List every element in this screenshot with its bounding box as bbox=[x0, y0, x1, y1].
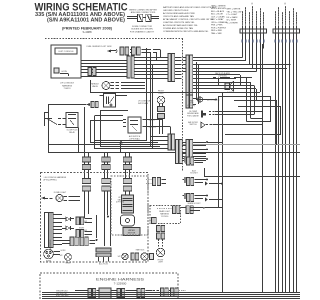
svg-text:WIPER: WIPER bbox=[128, 230, 135, 232]
svg-text:CIRCUITS AND GRN AND TAN: CIRCUITS AND GRN AND TAN bbox=[163, 15, 194, 18]
svg-text:LH CONSOLE: LH CONSOLE bbox=[50, 239, 52, 251]
svg-text:FUEL SENDER 5.0FT GRN: FUEL SENDER 5.0FT GRN bbox=[87, 46, 112, 48]
svg-text:LT = LIGHT: LT = LIGHT bbox=[227, 14, 238, 16]
svg-text:TAN = TAN: TAN = TAN bbox=[211, 32, 222, 35]
svg-text:LIGHT: LIGHT bbox=[158, 93, 164, 95]
svg-text:7-125900: 7-125900 bbox=[114, 282, 127, 286]
svg-text:BODIES NOT SHOWN: BODIES NOT SHOWN bbox=[131, 29, 153, 31]
svg-text:BLK = BLACK: BLK = BLACK bbox=[211, 10, 225, 13]
svg-text:S-4988: S-4988 bbox=[82, 30, 91, 34]
svg-text:GROUND CIRCUITS BLK: GROUND CIRCUITS BLK bbox=[163, 10, 189, 12]
svg-text:SWITCHES: SWITCHES bbox=[138, 103, 149, 105]
svg-text:COMMUNICATION CIRCUITS GRN-BR: COMMUNICATION CIRCUITS GRN-BRN-YEL bbox=[163, 30, 209, 33]
svg-text:FUEL GAUGE: FUEL GAUGE bbox=[187, 114, 199, 117]
svg-text:(OPTIONAL): (OPTIONAL) bbox=[129, 137, 140, 140]
svg-text:BRN = BROWN: BRN = BROWN bbox=[211, 8, 226, 10]
svg-text:ATTACHMENT CONTROL CIRCUITS G: ATTACHMENT CONTROL CIRCUITS GRN OR YEL bbox=[163, 18, 215, 21]
svg-text:RED = RED: RED = RED bbox=[211, 30, 223, 32]
svg-text:L/H CONSOLE HARNESS: L/H CONSOLE HARNESS bbox=[44, 176, 67, 179]
svg-text:RELAY: RELAY bbox=[69, 131, 76, 134]
svg-text:SOME CONNECTOR: SOME CONNECTOR bbox=[132, 26, 153, 28]
svg-text:POWER AND DOME YEL TAN: POWER AND DOME YEL TAN bbox=[163, 27, 193, 30]
svg-text:BATTERY FEED AND IGN KEY FEED: BATTERY FEED AND IGN KEY FEED CIRCUITS R… bbox=[163, 6, 217, 9]
svg-text:ACCESSORIES AND AUX PWR: ACCESSORIES AND AUX PWR bbox=[163, 12, 195, 15]
svg-text:ACCESSORY AND AUX FEED YEL: ACCESSORY AND AUX FEED YEL bbox=[163, 24, 199, 27]
svg-text:LIGHT: LIGHT bbox=[158, 262, 163, 264]
svg-text:LIGHTING CIRCUITS GRN-YEL: LIGHTING CIRCUITS GRN-YEL bbox=[163, 22, 195, 24]
svg-text:GRN = GREEN: GRN = GREEN bbox=[211, 5, 226, 7]
svg-text:PNK = PINK: PNK = PINK bbox=[211, 25, 223, 27]
svg-text:7-125690: 7-125690 bbox=[161, 216, 169, 218]
svg-text:BLU = BLUE: BLU = BLUE bbox=[211, 14, 223, 16]
svg-text:DOME LIGHT: DOME LIGHT bbox=[54, 192, 67, 194]
svg-text:DK = DARK: DK = DARK bbox=[227, 16, 239, 19]
svg-text:(OPTION): (OPTION) bbox=[116, 202, 124, 204]
svg-text:(IF EQUIPPED): (IF EQUIPPED) bbox=[43, 180, 57, 182]
svg-text:VALVE: VALVE bbox=[92, 85, 99, 88]
svg-text:SOCKET: SOCKET bbox=[190, 173, 198, 175]
svg-text:GRY = GRAY: GRY = GRAY bbox=[211, 18, 224, 21]
svg-text:HORN: HORN bbox=[61, 250, 67, 252]
svg-text:ORG = ORANGE: ORG = ORANGE bbox=[211, 21, 228, 24]
svg-text:(OPTION): (OPTION) bbox=[187, 105, 195, 107]
svg-text:PUR = PURPLE: PUR = PURPLE bbox=[211, 27, 227, 29]
svg-text:(S/N A9KA11001 AND ABOVE): (S/N A9KA11001 AND ABOVE) bbox=[47, 18, 125, 24]
svg-text:FOR DRAWING CLARITY: FOR DRAWING CLARITY bbox=[130, 30, 155, 33]
svg-text:SWITCH: SWITCH bbox=[189, 124, 197, 126]
svg-text:LEFT CONSOLE: LEFT CONSOLE bbox=[58, 51, 74, 53]
svg-text:L/H CONSOLE: L/H CONSOLE bbox=[60, 83, 75, 85]
svg-text:A2A OEM CONNECTORS: A2A OEM CONNECTORS bbox=[131, 11, 156, 14]
svg-text:ACC PLUG: ACC PLUG bbox=[99, 263, 108, 266]
svg-text:WHT = WHITE: WHT = WHITE bbox=[227, 9, 241, 11]
svg-text:710374: 710374 bbox=[64, 88, 72, 90]
svg-text:HORN: HORN bbox=[62, 71, 68, 73]
svg-text:S = STRIPE: S = STRIPE bbox=[227, 22, 239, 24]
svg-text:T-B AUX: T-B AUX bbox=[148, 119, 156, 122]
svg-text:HORN: HORN bbox=[46, 261, 52, 263]
svg-text:PART NOS: PART NOS bbox=[136, 249, 145, 252]
svg-text:ALTERNATOR: ALTERNATOR bbox=[207, 99, 220, 102]
svg-text:MOTOR: MOTOR bbox=[128, 233, 136, 235]
svg-text:SPARE SOCKET: SPARE SOCKET bbox=[187, 202, 200, 205]
svg-text:YEL = YELLOW: YEL = YELLOW bbox=[227, 11, 242, 13]
svg-text:HARNESS: HARNESS bbox=[62, 84, 73, 87]
svg-text:CLR = CLEAR: CLR = CLEAR bbox=[211, 15, 225, 18]
svg-text:WIRES CONNECTED AFTER: WIRES CONNECTED AFTER bbox=[129, 9, 157, 12]
svg-text:W = WITH: W = WITH bbox=[227, 20, 237, 22]
